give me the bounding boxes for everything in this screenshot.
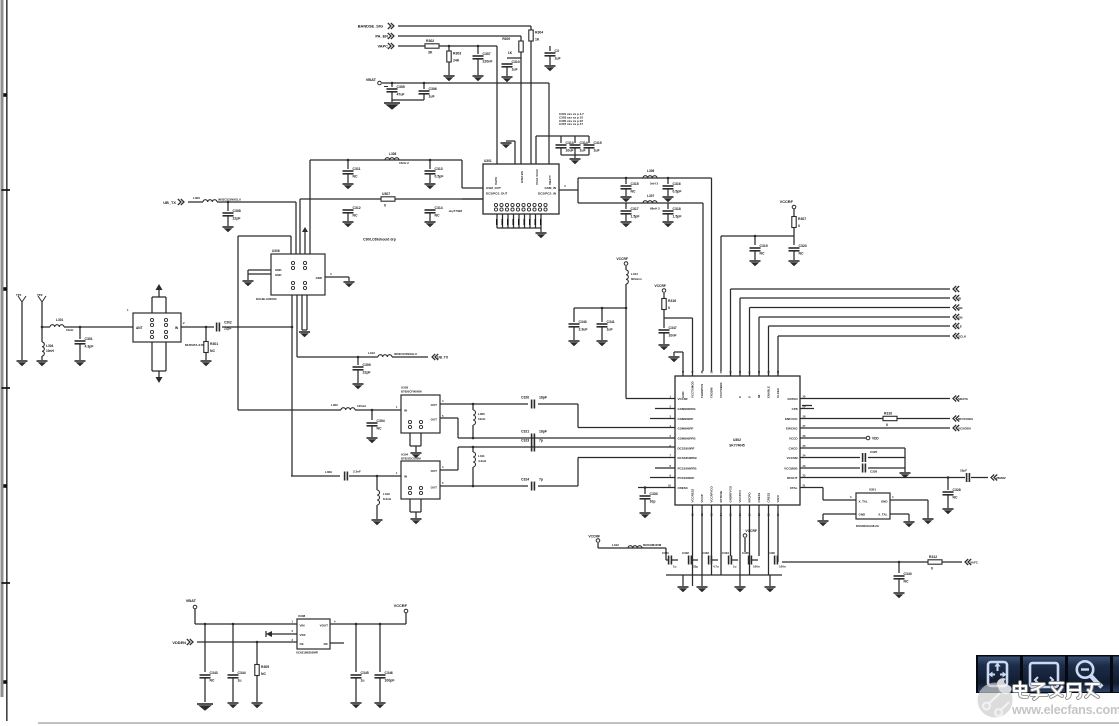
svg-text:600ohm: 600ohm	[631, 277, 642, 281]
svg-text:C333: C333	[702, 551, 709, 555]
svg-text:OUT: OUT	[431, 403, 438, 407]
svg-text:GND: GND	[881, 500, 889, 504]
wire to U302 pin 4	[578, 427, 675, 429]
net label RFVCOEN	[958, 417, 973, 421]
wire	[927, 500, 929, 518]
U302 bottom pin label VAFC	[776, 494, 780, 503]
capacitor C333	[709, 556, 712, 565]
wire PA DCS_OUT	[462, 198, 483, 200]
svg-text:C308: C308	[233, 209, 241, 213]
resistor R305b	[255, 665, 270, 677]
junction	[391, 82, 394, 85]
svg-text:C324: C324	[521, 478, 529, 482]
wire	[347, 213, 349, 221]
U306 part number KGHB-A0000C	[256, 297, 278, 301]
arrow up	[156, 284, 163, 290]
ground	[943, 509, 954, 514]
resistor R310	[883, 412, 897, 428]
X301 pin X_TAL a	[859, 500, 868, 504]
wire to ANT block	[64, 326, 133, 328]
svg-text:VSS: VSS	[300, 633, 306, 637]
toolbar icon zoom-out	[1077, 661, 1102, 687]
wire	[530, 26, 532, 30]
L306 value	[650, 182, 659, 186]
wire	[227, 216, 229, 226]
watermark url	[1011, 703, 1119, 717]
TP2 label	[37, 293, 43, 297]
net label IB	[958, 296, 962, 300]
resistor R309 value	[508, 51, 513, 55]
U303 gnd bracket	[410, 433, 421, 452]
svg-text:C315: C315	[631, 182, 639, 186]
wire	[644, 488, 646, 495]
pin number 7	[670, 454, 672, 458]
U301 bottom gnd pads	[494, 203, 547, 211]
svg-text:R302: R302	[426, 39, 434, 43]
wire	[793, 209, 795, 217]
wire to PA pin PA_EN	[520, 52, 522, 164]
svg-text:L314: L314	[631, 272, 638, 276]
wire	[461, 160, 463, 188]
viewer toolbar	[976, 655, 1119, 693]
svg-text:10nF: 10nF	[669, 334, 677, 338]
capacitor C343b	[894, 572, 912, 583]
junction	[357, 356, 360, 359]
wire	[379, 624, 381, 672]
svg-text:33p: 33p	[693, 565, 698, 569]
wire U302 top pin bus	[730, 289, 732, 376]
pin number 12	[700, 513, 704, 516]
wire	[561, 154, 589, 156]
svg-text:8.2nH: 8.2nH	[383, 497, 391, 501]
wire tick	[802, 405, 812, 407]
wire NC stub	[330, 642, 344, 644]
svg-text:C340: C340	[579, 320, 587, 324]
output arrow IB	[953, 295, 959, 301]
wire	[248, 269, 271, 271]
inductor L314	[626, 270, 628, 284]
U308 pin VIN	[300, 624, 305, 628]
wire	[667, 178, 669, 184]
capacitor C309	[353, 363, 371, 374]
wire	[598, 547, 666, 549]
arrow left VSS	[266, 631, 272, 637]
wire to SAW1	[238, 409, 341, 411]
wire stub	[800, 408, 814, 410]
wire	[357, 357, 359, 365]
svg-text:C343: C343	[210, 671, 218, 675]
svg-text:VCCTXMOD: VCCTXMOD	[691, 381, 695, 398]
wire	[793, 236, 795, 245]
pin number 2	[670, 405, 672, 409]
C302 refdes	[224, 321, 232, 325]
svg-text:C344: C344	[238, 671, 246, 675]
pin number 23	[803, 464, 806, 468]
wire to PA pin	[535, 136, 537, 164]
wire	[577, 458, 579, 487]
wire SAW2 out4	[440, 469, 458, 471]
capacitor C345	[351, 671, 369, 682]
pin number 22	[803, 474, 806, 478]
wire	[355, 624, 357, 672]
inductor L308	[385, 158, 399, 160]
svg-text:0: 0	[931, 567, 933, 571]
pin number 31	[776, 370, 780, 373]
U301 pin label VCC	[535, 169, 539, 185]
wire bus to arrow	[731, 288, 951, 290]
C302 value	[224, 327, 231, 331]
svg-text:RFOUT: RFOUT	[787, 476, 797, 480]
wire bus to arrow	[740, 297, 950, 299]
svg-text:SKY74045: SKY74045	[729, 444, 745, 448]
svg-text:SDATA: SDATA	[958, 397, 969, 401]
svg-text:3K: 3K	[428, 51, 433, 55]
U306 pin GND right	[316, 276, 322, 280]
U304 part	[401, 457, 421, 461]
input arrow UB_TX	[178, 199, 184, 205]
wire	[667, 189, 669, 196]
wire	[768, 505, 770, 575]
junction	[205, 326, 208, 329]
wire	[355, 678, 357, 702]
wire	[79, 344, 81, 360]
wire	[348, 277, 350, 281]
ground	[669, 357, 680, 362]
wire	[673, 352, 675, 356]
wire	[256, 676, 258, 702]
U302 right pin label EWCKO	[786, 426, 798, 430]
svg-text:GND: GND	[275, 268, 281, 272]
wire	[549, 56, 551, 65]
svg-text:L308: L308	[389, 152, 396, 156]
wire	[538, 485, 578, 487]
svg-text:L313: L313	[368, 351, 375, 355]
wire	[204, 624, 206, 672]
L310 refdes	[383, 492, 390, 496]
U301 pin DCS_PCS_OUT	[486, 192, 508, 196]
svg-text:PCS1900RF: PCS1900RF	[678, 476, 695, 480]
ground	[37, 361, 48, 366]
L303 refdes	[193, 196, 200, 200]
svg-text:GNDRFVCO: GNDRFVCO	[729, 485, 733, 502]
U302 top pin label 88	[757, 394, 761, 398]
ground	[252, 703, 263, 708]
wire	[429, 213, 431, 221]
net label UB_TX out	[437, 356, 449, 360]
wire to U302 pin 37	[720, 236, 722, 371]
U303 gnd pads	[408, 420, 422, 428]
capacitor C331	[669, 556, 672, 565]
svg-text:C330: C330	[650, 492, 658, 496]
svg-text:600OHM100M: 600OHM100M	[643, 543, 662, 547]
U302 right pin label RFOUT	[787, 476, 797, 480]
wire	[429, 160, 431, 169]
svg-text:CRES2: CRES2	[767, 492, 771, 502]
capacitor C314a	[425, 206, 443, 217]
svg-text:C302: C302	[224, 321, 232, 325]
output arrow SCLK	[953, 333, 959, 339]
wire CE	[197, 641, 297, 643]
svg-text:4.3pF: 4.3pF	[85, 345, 94, 349]
pin number 4	[670, 424, 672, 428]
wire	[769, 575, 771, 586]
U306 internal pads	[291, 261, 306, 289]
U302 bottom pin label RFTUNE	[719, 491, 723, 503]
capacitor C316	[663, 182, 682, 193]
svg-text:VCCSM: VCCSM	[787, 456, 798, 460]
svg-text:VCXOEN: VCXOEN	[958, 427, 971, 431]
svg-text:GSM BS: GSM BS	[520, 171, 524, 183]
capacitor C312a	[343, 206, 361, 217]
svg-text:GSM900RF: GSM900RF	[678, 426, 694, 430]
U303 pin OUT a	[431, 403, 438, 407]
wire	[41, 356, 43, 360]
svg-text:L310: L310	[383, 492, 390, 496]
svg-text:RFTUNE: RFTUNE	[719, 491, 723, 503]
node VBAT	[378, 81, 382, 85]
svg-text:18pF: 18pF	[960, 469, 967, 473]
svg-text:C320: C320	[799, 244, 807, 248]
wire	[507, 57, 521, 59]
rf switch U306 body	[271, 254, 325, 295]
watermark text zi	[1031, 684, 1047, 699]
wire bus to arrow	[769, 325, 951, 327]
U302 top pin label VCCTXMOD	[691, 381, 695, 398]
svg-text:1uF: 1uF	[512, 68, 518, 72]
wire	[232, 624, 234, 672]
junction	[601, 307, 604, 310]
net label VAPC	[377, 44, 388, 49]
wire	[971, 477, 988, 479]
U301 refdes	[484, 159, 492, 163]
svg-text:GSM900RF: GSM900RF	[678, 417, 694, 421]
junction	[227, 201, 230, 204]
wire	[457, 418, 459, 438]
svg-text:2.2nF: 2.2nF	[353, 470, 361, 474]
svg-text:1uF: 1uF	[607, 328, 613, 332]
wire	[890, 513, 909, 515]
wire	[448, 62, 450, 75]
U302 left pin label GSM900RFB	[678, 436, 697, 440]
ground	[569, 341, 580, 346]
svg-text:GSM_IN: GSM_IN	[544, 186, 556, 190]
wire	[577, 404, 579, 428]
wire	[309, 199, 311, 254]
ground	[570, 159, 581, 164]
svg-text:R301: R301	[210, 342, 218, 346]
svg-text:GSM_OUT: GSM_OUT	[486, 186, 501, 190]
wire	[520, 36, 522, 41]
inductor L303	[203, 200, 217, 202]
junction	[472, 446, 475, 449]
svg-text:0: 0	[384, 204, 386, 208]
wire	[423, 94, 425, 100]
watermark text fa	[1050, 683, 1063, 697]
wire	[664, 317, 693, 319]
capacitor C328	[943, 488, 961, 499]
pin number 26	[803, 434, 806, 438]
capacitor C319	[750, 244, 768, 255]
C326 refdes	[870, 470, 878, 474]
net label UB_TX	[163, 200, 176, 205]
wire	[574, 155, 576, 158]
ground	[344, 282, 355, 287]
svg-text:L307: L307	[647, 194, 654, 198]
svg-text:C301: C301	[85, 337, 93, 341]
ground	[894, 593, 905, 598]
wire	[448, 46, 450, 51]
wire	[391, 83, 393, 87]
U308 pin VSS	[300, 633, 306, 637]
svg-text:sky77328: sky77328	[449, 209, 463, 213]
note table row	[559, 112, 584, 116]
elecfans logo watermark	[978, 678, 1013, 717]
svg-text:VCC1 VCC2: VCC1 VCC2	[535, 169, 539, 185]
pin number 4c	[892, 495, 894, 499]
U308 refdes	[298, 614, 306, 618]
ground	[621, 222, 632, 227]
resistor R301	[204, 342, 219, 354]
net label VCCRF bottom	[588, 535, 600, 539]
svg-text:B7820CF9000M: B7820CF9000M	[401, 390, 422, 394]
wire U302 pin9 stub	[650, 477, 675, 479]
pin number 35	[738, 370, 742, 373]
svg-text:1K: 1K	[508, 51, 513, 55]
ground	[536, 233, 547, 238]
svg-text:VAPC: VAPC	[377, 44, 388, 49]
svg-text:C321: C321	[521, 430, 529, 434]
L306 refdes	[647, 169, 654, 173]
wire	[947, 478, 949, 491]
wire	[549, 46, 551, 51]
U302 top pin label 8	[738, 396, 742, 398]
svg-text:SCLK: SCLK	[958, 334, 967, 338]
pin number 3	[850, 495, 852, 499]
U302 right pin label CHCO	[789, 446, 798, 450]
junction	[423, 82, 426, 85]
wire	[238, 235, 240, 237]
wire	[793, 228, 795, 236]
svg-text:15nH 2: 15nH 2	[399, 161, 409, 165]
svg-text:NC: NC	[210, 679, 215, 683]
svg-text:VCCRF: VCCRF	[654, 284, 666, 288]
output arrow UB_TX	[432, 354, 438, 360]
pin number 21	[803, 484, 806, 488]
wire	[248, 273, 271, 275]
capacitor C344	[228, 671, 246, 682]
svg-text:VDD: VDD	[872, 437, 879, 441]
U301 pin GSM_IN	[544, 186, 556, 190]
wire	[392, 356, 428, 358]
U302 top pin label CLKEX	[776, 388, 780, 398]
svg-text:C326: C326	[870, 470, 878, 474]
capacitor C318	[663, 207, 682, 218]
svg-text:TXODM: TXODM	[710, 387, 714, 398]
svg-text:R304: R304	[535, 31, 543, 35]
svg-text:ENABLE: ENABLE	[767, 386, 771, 398]
wire to U302 pin 39	[702, 203, 704, 371]
wire	[730, 505, 732, 556]
L313 part	[394, 352, 417, 356]
wire	[349, 475, 401, 477]
saw filter U304 body	[401, 461, 440, 499]
svg-text:C331: C331	[662, 551, 669, 555]
wire	[405, 613, 407, 624]
node VCCRF d	[743, 534, 747, 538]
svg-text:7p: 7p	[539, 439, 543, 443]
TP1 label	[16, 293, 22, 297]
wire	[357, 370, 359, 383]
wire	[898, 579, 900, 592]
resistor R309 label	[502, 37, 510, 41]
U302 left pin label GSM900RF	[678, 426, 694, 430]
ground	[735, 587, 746, 592]
wire	[392, 99, 424, 101]
svg-text:C309: C309	[363, 363, 371, 367]
wire VAPC	[398, 45, 425, 47]
svg-text:10nH: 10nH	[478, 417, 485, 421]
svg-text:1uF: 1uF	[429, 95, 435, 99]
svg-text:CHCO: CHCO	[789, 446, 798, 450]
ground	[375, 703, 386, 708]
U306 pin GND b	[275, 273, 281, 277]
resistor R312	[928, 555, 942, 571]
net label VBAT b	[186, 598, 197, 603]
svg-text:X_TAL: X_TAL	[859, 500, 868, 504]
resistor R303	[447, 51, 462, 63]
wire	[355, 409, 401, 411]
ground	[425, 184, 436, 189]
L314 value	[631, 277, 642, 281]
input arrow VDDEN	[187, 639, 193, 645]
L312 part	[643, 543, 662, 547]
ground	[678, 587, 689, 592]
svg-text:C314: C314	[435, 206, 443, 210]
U304 pin OUT a	[431, 469, 438, 473]
U303 pin IN	[404, 409, 407, 413]
wire to PA pin VAPC	[496, 46, 498, 164]
wire	[625, 214, 627, 221]
svg-text:VBAT: VBAT	[366, 77, 377, 82]
ground	[353, 384, 364, 389]
wire	[577, 178, 579, 203]
junction	[754, 235, 757, 238]
X301 pin GND b	[859, 513, 867, 517]
svg-text:X301: X301	[869, 488, 876, 492]
wire U302 pin10	[638, 487, 675, 489]
wire U302 top pin bus	[768, 326, 770, 376]
toolbar icon actual-size	[988, 662, 1007, 686]
U302 left pin label PCS1900RF	[678, 476, 695, 480]
capacitor C306	[419, 87, 437, 98]
svg-text:GND: GND	[316, 276, 322, 280]
L307 value	[650, 207, 660, 211]
junction	[41, 326, 44, 329]
note table row	[559, 115, 583, 119]
L314 refdes	[631, 272, 638, 276]
wire	[540, 228, 542, 232]
svg-text:www.elecfans.com: www.elecfans.com	[1011, 703, 1119, 717]
C332 refdes	[682, 551, 689, 555]
svg-text:VCCRF: VCCRF	[780, 199, 794, 204]
net label VDD	[872, 437, 879, 441]
svg-text:DCS/PCS_OUT: DCS/PCS_OUT	[486, 192, 508, 196]
pin number 27	[803, 424, 806, 428]
L301 refdes	[56, 318, 63, 322]
svg-text:1u: 1u	[361, 679, 365, 683]
wire	[256, 642, 258, 664]
node VDD	[866, 436, 870, 440]
